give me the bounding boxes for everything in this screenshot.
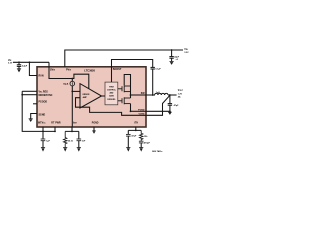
node junction dot RUN branch xyxy=(29,61,31,63)
wire VIN_REG xyxy=(22,90,37,92)
ground below CSET xyxy=(77,148,81,152)
resistor RITH 15k xyxy=(140,130,143,141)
capacitor CIN 22uF xyxy=(169,50,173,61)
ground below RSET xyxy=(63,148,67,152)
svg-text:30.1k: 30.1k xyxy=(68,140,74,142)
wire ITH tee xyxy=(128,127,141,131)
capacitor CITH2 47pF xyxy=(126,130,131,147)
svg-text:ERROR: ERROR xyxy=(83,94,90,96)
IC block U1 LTC3626 xyxy=(37,67,146,127)
wire SGND xyxy=(31,114,37,119)
node junction dot COUT ground xyxy=(169,110,171,112)
node junction dot RT xyxy=(54,131,56,133)
wire PGND to edge xyxy=(131,110,147,112)
current source I1 50uA xyxy=(70,81,75,86)
resistor RSET 30.1k xyxy=(64,131,67,147)
pin stub PGND bottom ground xyxy=(93,127,95,131)
svg-text:1µH: 1µH xyxy=(156,92,160,94)
wire RUN xyxy=(29,62,37,75)
svg-text:×2: ×2 xyxy=(176,58,178,61)
svg-text:VIN: VIN xyxy=(8,60,12,62)
node junction dot VOUT xyxy=(169,94,171,96)
wire BOOST loop xyxy=(112,60,153,68)
svg-text:DRIVERS: DRIVERS xyxy=(107,99,116,101)
svg-text:1.2V: 1.2V xyxy=(178,93,183,95)
wire SVIN internal rail xyxy=(49,67,89,89)
inductor L1 1uH xyxy=(155,93,168,95)
ground below CITH xyxy=(139,148,143,152)
wire SW out xyxy=(146,94,155,96)
svg-text:PWM: PWM xyxy=(109,86,114,88)
capacitor C1 2.2uF xyxy=(17,62,21,68)
svg-text:AMP: AMP xyxy=(83,96,88,99)
svg-text:PGND: PGND xyxy=(92,122,99,124)
ground below COUT xyxy=(168,112,172,115)
wire MODE/SYNC xyxy=(22,94,37,96)
svg-text:3626 TA01a: 3626 TA01a xyxy=(152,150,163,153)
svg-text:47pF: 47pF xyxy=(131,135,137,138)
node junction dot ITH xyxy=(135,130,137,132)
svg-text:AND: AND xyxy=(109,92,114,95)
op-amp error amplifier xyxy=(80,84,102,108)
svg-text:BOOST: BOOST xyxy=(113,68,122,71)
ground below CIN xyxy=(170,62,174,65)
capacitor CB 0.1uF boost xyxy=(151,67,155,95)
node junction dot SW internal xyxy=(130,94,132,96)
wire VOUT xyxy=(168,94,177,96)
wire boost rail internal xyxy=(124,75,130,87)
wire BOOST internal xyxy=(111,67,113,82)
wire Q1 source to SW xyxy=(130,86,132,95)
wire MODE vertical to INTVCC rail xyxy=(22,91,55,131)
wire current source top xyxy=(71,79,73,82)
svg-text:0.1µF: 0.1µF xyxy=(155,68,161,70)
wire PGND right xyxy=(146,110,170,112)
svg-text:ISET: ISET xyxy=(73,122,77,124)
wire VOSNS sense xyxy=(146,95,170,115)
svg-text:1nF: 1nF xyxy=(82,141,86,143)
ground below CVCC xyxy=(41,148,45,152)
svg-text:GATE: GATE xyxy=(109,95,115,98)
wire ISET internal vertical xyxy=(71,86,73,127)
svg-text:50µA: 50µA xyxy=(63,82,69,85)
svg-text:RUN: RUN xyxy=(39,76,44,78)
pin stub RT xyxy=(54,127,56,132)
svg-text:MODE/SYNC: MODE/SYNC xyxy=(39,95,53,97)
transistor Q2 bottom NMOS xyxy=(118,97,131,104)
node junction dot plus input xyxy=(71,91,73,93)
wire Q2 source to PGND xyxy=(130,104,132,112)
wire error amp plus input xyxy=(72,90,80,92)
svg-text:VIN_REG: VIN_REG xyxy=(39,91,49,93)
svg-text:VIN: VIN xyxy=(184,49,188,51)
wire SW to edge xyxy=(131,94,147,96)
svg-text:PWR: PWR xyxy=(55,122,61,124)
wire VIN left horizontal xyxy=(13,61,49,63)
svg-text:VOUT: VOUT xyxy=(178,90,184,92)
node junction dot INTVCC xyxy=(42,131,44,133)
node junction dot MODE xyxy=(21,94,23,96)
node junction dot VIN rail xyxy=(171,49,173,51)
svg-text:ITH: ITH xyxy=(134,123,138,125)
capacitor CITH 470pF xyxy=(139,141,144,147)
node junction dot input cap xyxy=(18,61,20,63)
node junction dot SW boost xyxy=(152,94,154,96)
svg-text:INTVCC: INTVCC xyxy=(38,122,46,124)
wire VOUT drop to COUT xyxy=(169,95,171,103)
svg-text:LTC3626: LTC3626 xyxy=(84,69,95,73)
svg-text:470pF: 470pF xyxy=(144,142,151,145)
capacitor COUT 47uF xyxy=(168,104,172,112)
svg-text:3.3V: 3.3V xyxy=(184,52,189,54)
wire ISET tee xyxy=(65,127,79,132)
svg-text:47µF: 47µF xyxy=(174,104,180,107)
svg-text:15k: 15k xyxy=(144,136,148,138)
svg-text:1µF: 1µF xyxy=(46,141,50,143)
svg-text:CONTROL: CONTROL xyxy=(107,90,117,92)
pin stub PGOOD xyxy=(33,103,37,105)
wire SVIN drop xyxy=(48,62,50,67)
wire PVIN riser and VIN rail xyxy=(65,50,183,67)
ground below C1 xyxy=(17,69,21,73)
svg-text:2.2µF: 2.2µF xyxy=(22,66,28,68)
node junction dot above current source xyxy=(71,78,73,80)
wire Q2 drain to SW xyxy=(130,95,132,98)
ground below CITH2 xyxy=(126,148,130,152)
svg-text:PGOOD: PGOOD xyxy=(39,101,48,103)
PWM control block xyxy=(105,82,118,105)
capacitor CVCC 1uF xyxy=(41,127,46,148)
wire error amp minus input feedback xyxy=(76,98,147,116)
transistor Q1 top NMOS xyxy=(118,85,131,92)
node junction dot PGND internal xyxy=(130,110,132,112)
wire error amp output xyxy=(102,95,106,97)
ground SGND xyxy=(29,119,33,122)
svg-text:4A: 4A xyxy=(178,96,181,99)
svg-text:3.3V: 3.3V xyxy=(8,63,13,65)
ground below PGND pin xyxy=(92,131,95,134)
svg-text:SGND: SGND xyxy=(39,115,46,117)
capacitor CSET 2.2nF xyxy=(77,131,82,147)
node junction dot ISET xyxy=(71,131,73,133)
